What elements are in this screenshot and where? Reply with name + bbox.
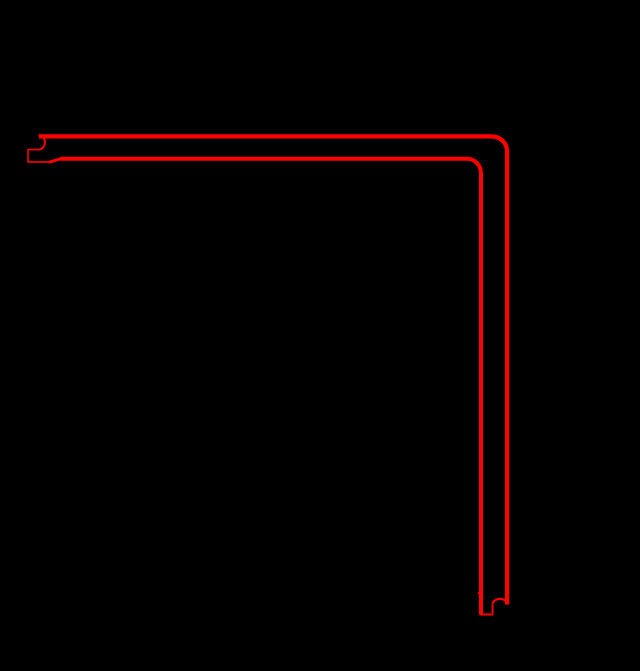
bottom broken-end cap: semicircular notch — [493, 599, 508, 604]
left broken-end cap: semicircular notch — [38, 135, 44, 150]
tube outer wall (top horizontal run, rounded elbow, right vertical run) — [39, 136, 507, 604]
small break nub on inner vertical wall — [477, 589, 481, 597]
inner wall break transition diagonal at left end — [49, 159, 62, 163]
left broken-end cap: step outline — [28, 150, 49, 162]
tube inner wall (lower horizontal run, rounded elbow, left vertical run) — [60, 159, 481, 615]
bottom broken-end cap: step outline — [480, 604, 493, 614]
